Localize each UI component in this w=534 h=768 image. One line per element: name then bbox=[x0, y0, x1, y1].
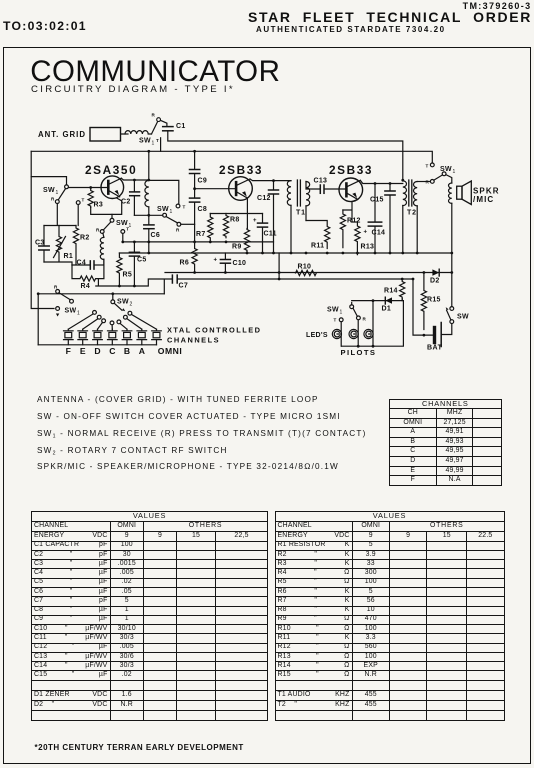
svg-text:C15: C15 bbox=[370, 197, 384, 204]
rotary contact OMNI with wire bbox=[128, 311, 157, 329]
svg-text:C13: C13 bbox=[314, 178, 328, 185]
svg-text:SW: SW bbox=[139, 138, 151, 145]
capacitor C4 bbox=[72, 260, 104, 270]
capacitor C14 electrolytic bbox=[364, 184, 386, 254]
resistor R11 bbox=[306, 221, 330, 250]
wire: T1 right bottom to R11 rail bbox=[305, 206, 307, 221]
capacitor C9 bbox=[190, 170, 208, 185]
capacitor C10 electrolytic bbox=[214, 253, 247, 273]
svg-text:R10: R10 bbox=[298, 264, 312, 271]
svg-text:R: R bbox=[54, 285, 58, 290]
capacitor C11 electrolytic bbox=[253, 214, 277, 254]
svg-text:C5: C5 bbox=[137, 257, 147, 264]
capacitor C6 bbox=[144, 215, 160, 253]
resistor R6 bbox=[180, 242, 198, 273]
wire: junction to SW1 C6 pivot bbox=[134, 214, 162, 216]
node: pilots rail dots bbox=[357, 299, 375, 347]
wire antenna T contact down to top bus bbox=[160, 138, 162, 152]
wire bus H4 bbox=[165, 272, 452, 274]
capacitor C7 bbox=[172, 275, 188, 289]
capacitor C1 bbox=[163, 123, 186, 131]
switch SW1 mid (osc keying) bbox=[96, 218, 129, 233]
svg-text:C4: C4 bbox=[77, 260, 87, 267]
node: L3 bottom junction bbox=[147, 214, 150, 217]
svg-text:R2: R2 bbox=[80, 235, 90, 242]
crystal channel B bbox=[122, 329, 132, 345]
wire: SW R contact to C8 column bbox=[181, 223, 195, 225]
svg-text:D: D bbox=[94, 346, 100, 356]
svg-text:PILOTS: PILOTS bbox=[341, 348, 377, 357]
svg-text:SW: SW bbox=[457, 314, 469, 321]
wire: coil L3 tap stub to SW1 C6 T contact bbox=[149, 151, 179, 203]
wire: R7/R8/C11 top rail bbox=[210, 213, 262, 215]
svg-text:R1: R1 bbox=[64, 253, 74, 260]
capacitor C12 bbox=[257, 181, 279, 253]
svg-text:D2: D2 bbox=[430, 278, 440, 285]
svg-text:T: T bbox=[82, 198, 85, 203]
LED lamp 1 with tangent wire bbox=[332, 322, 341, 346]
svg-text:R: R bbox=[363, 317, 367, 322]
svg-text:C12: C12 bbox=[257, 195, 271, 202]
svg-text:R: R bbox=[176, 228, 180, 233]
svg-text:R8: R8 bbox=[230, 217, 240, 224]
resistor R15 bbox=[421, 273, 440, 330]
wire: base of Q1 bbox=[68, 187, 108, 189]
svg-text:2SB33: 2SB33 bbox=[329, 163, 373, 177]
LED lamp 3 (tangent is pilots mid vertical) bbox=[364, 329, 373, 338]
wire: crystal ground bus bbox=[38, 344, 156, 346]
switch SW1 (C6 side) bbox=[163, 204, 186, 232]
svg-text:+: + bbox=[364, 230, 368, 236]
transformer T1 bbox=[287, 180, 309, 217]
transistor Q3 2SB33 bbox=[339, 178, 363, 202]
resistor R5 bbox=[117, 253, 132, 286]
capacitor C2 bbox=[121, 180, 140, 215]
label SW2 bbox=[117, 299, 133, 308]
wire: SW1 mid R contact to coil L2 top bbox=[103, 233, 104, 237]
rotary contact D with wire bbox=[98, 319, 106, 329]
wire: pilots box top rail bbox=[342, 299, 404, 347]
node: battery rail junction bbox=[423, 334, 426, 337]
antenna coil L1 bbox=[121, 131, 152, 134]
wire: C9/C8 column from top bus bbox=[194, 151, 196, 242]
svg-text:C6: C6 bbox=[151, 232, 161, 239]
rotary contact B with wire bbox=[117, 320, 127, 329]
svg-text:SW: SW bbox=[117, 299, 129, 306]
wire: Q1 collector to oscillator coil bbox=[121, 178, 149, 180]
RIGHT VALUES table bbox=[275, 511, 505, 722]
node wire: bias network top rail bbox=[44, 204, 78, 226]
svg-text:R15: R15 bbox=[427, 297, 441, 304]
svg-text:1: 1 bbox=[152, 141, 155, 147]
wire: feed from left border to SW1 left pivot bbox=[31, 177, 66, 185]
oscillator coil L3 bbox=[145, 180, 149, 206]
label SW1 (C6 side) bbox=[157, 206, 173, 215]
wire: T1 left bottom to M2 bbox=[290, 205, 292, 253]
transformer T2 bbox=[403, 180, 417, 217]
capacitor C8 bbox=[190, 198, 208, 213]
resistor R8 bbox=[223, 214, 239, 238]
svg-text:C7: C7 bbox=[179, 283, 189, 290]
svg-text:C10: C10 bbox=[233, 260, 247, 267]
node: collector rail dots bbox=[374, 179, 405, 185]
resistor R3 bbox=[88, 188, 103, 209]
svg-text:1: 1 bbox=[129, 223, 132, 229]
wire: T2 right top to speaker switch R contact bbox=[417, 181, 430, 183]
svg-text:T: T bbox=[334, 318, 337, 323]
svg-text:R: R bbox=[152, 113, 156, 118]
wire: coil L2 bottom to C4/R4 loop bbox=[103, 259, 105, 265]
wire: circuit left border down to SW1 T contact bbox=[31, 151, 54, 308]
svg-text:C9: C9 bbox=[198, 178, 208, 185]
wire: speaker column down to on/off switch bbox=[451, 203, 453, 306]
battery BAT bbox=[427, 323, 452, 352]
svg-text:+: + bbox=[253, 218, 257, 224]
wire: pilots mid vertical bbox=[372, 301, 374, 347]
wire: H5 right end down to battery rail bbox=[413, 279, 433, 335]
wire H1: C1 down and right to T2 vertical bbox=[168, 131, 403, 180]
switch SW1 bottom left bbox=[54, 285, 73, 304]
svg-text:1: 1 bbox=[56, 190, 59, 196]
resistor R14 bbox=[384, 279, 405, 301]
resistor R9 bbox=[232, 229, 250, 253]
crystal channel E bbox=[78, 329, 88, 345]
wire: SW1 mid T contact down to bus M1 bbox=[122, 233, 124, 242]
svg-text:B: B bbox=[124, 346, 130, 356]
crystal channel C bbox=[108, 329, 118, 345]
svg-text:CHANNELS: CHANNELS bbox=[167, 336, 220, 345]
speaker voice coil bbox=[449, 183, 452, 203]
transistor Q1 2SA350 bbox=[101, 176, 124, 199]
crystal channel D bbox=[93, 329, 103, 345]
diode D2 bbox=[430, 269, 440, 284]
wire: Q3 collector rail to T2 bbox=[360, 180, 403, 183]
svg-text:OMNI: OMNI bbox=[158, 346, 182, 356]
wire: Q2 collector to T1 bbox=[250, 179, 291, 181]
svg-text:R: R bbox=[51, 197, 55, 202]
wire: M2 to H5 drop bbox=[278, 253, 280, 279]
svg-text:R9: R9 bbox=[232, 244, 242, 251]
svg-text:SW: SW bbox=[116, 220, 128, 227]
wire: T2 right bottom to M2 bbox=[416, 206, 418, 253]
resistor R2 bbox=[73, 226, 89, 265]
wire bus M2 bbox=[119, 252, 451, 254]
svg-text:C: C bbox=[109, 346, 115, 356]
svg-text:C3: C3 bbox=[35, 240, 45, 247]
svg-text:ANT. GRID: ANT. GRID bbox=[38, 130, 86, 139]
crystal channel OMNI bbox=[152, 329, 162, 345]
svg-text:R7: R7 bbox=[196, 231, 206, 238]
svg-text:T: T bbox=[156, 138, 159, 143]
svg-text:R12: R12 bbox=[347, 218, 361, 225]
svg-text:C14: C14 bbox=[372, 230, 386, 237]
svg-text:T: T bbox=[426, 164, 429, 169]
svg-text:SW: SW bbox=[43, 187, 55, 194]
ferrite loop antenna rectangle bbox=[90, 128, 121, 142]
svg-text:SW: SW bbox=[157, 206, 169, 213]
wire: T2 left bottom to M2 bbox=[402, 205, 404, 253]
label SW1 (speaker) bbox=[440, 166, 456, 175]
svg-text:+: + bbox=[214, 258, 218, 264]
wire: R3 bottom to emitter node bbox=[91, 198, 122, 215]
wire bus H6 (SW1 bottom rail) bbox=[38, 293, 164, 295]
wire: Q3 emitter down with taps bbox=[343, 199, 358, 222]
svg-text:R13: R13 bbox=[361, 244, 375, 251]
svg-text:R: R bbox=[96, 228, 100, 233]
label SW1 (left) bbox=[43, 187, 59, 196]
svg-text:A: A bbox=[139, 346, 145, 356]
svg-text:R4: R4 bbox=[81, 283, 91, 290]
node dots on H4 bbox=[111, 271, 453, 295]
label SW1 (mid) bbox=[116, 220, 132, 229]
label XTAL CONTROLLED CHANNELS bbox=[167, 326, 262, 345]
crystal channel A bbox=[137, 329, 147, 345]
svg-text:C1: C1 bbox=[176, 123, 186, 130]
svg-text:C8: C8 bbox=[198, 206, 208, 213]
svg-text:LED'S: LED'S bbox=[306, 332, 328, 339]
switch SW1 bottom left T contact bbox=[56, 307, 60, 317]
channel letters F E D C B A OMNI bbox=[66, 346, 183, 356]
svg-text:SW: SW bbox=[65, 308, 77, 315]
label SW1 (pilots) bbox=[327, 307, 343, 316]
svg-text:2SA350: 2SA350 bbox=[85, 163, 137, 177]
svg-text:SW: SW bbox=[440, 166, 452, 173]
svg-text:R3: R3 bbox=[94, 202, 104, 209]
svg-text:1: 1 bbox=[453, 169, 456, 175]
svg-text:BAT: BAT bbox=[427, 345, 443, 352]
wire: H6 down to crystal ground bus bbox=[37, 294, 39, 345]
svg-text:2: 2 bbox=[130, 302, 133, 308]
svg-text:2SB33: 2SB33 bbox=[219, 163, 263, 177]
switch SW1 pilots bbox=[334, 303, 367, 323]
svg-text:1: 1 bbox=[340, 310, 343, 316]
rotary contact C with wire bbox=[110, 321, 114, 329]
svg-text:E: E bbox=[80, 346, 86, 356]
wire: emitter node down to SW1 mid pivot bbox=[111, 214, 113, 218]
resistor R4 bbox=[72, 259, 104, 290]
node dots on M1/M2 bbox=[121, 241, 453, 255]
svg-text:T1: T1 bbox=[296, 210, 306, 217]
switch SW1 left (receive/transmit) bbox=[51, 185, 85, 205]
node: H6 left end bbox=[37, 292, 40, 295]
switch SW2 rotary bbox=[111, 294, 125, 312]
svg-text:C11: C11 bbox=[264, 231, 277, 238]
svg-text:R5: R5 bbox=[123, 272, 133, 279]
capacitor C5 bbox=[129, 242, 146, 286]
crystal channel F bbox=[64, 329, 74, 345]
rotary contact F with wire bbox=[68, 311, 96, 330]
diode D1 bbox=[382, 297, 393, 312]
resistor R12 bbox=[340, 210, 360, 248]
speaker SPKR/MIC symbol bbox=[457, 181, 472, 205]
capacitor C15 bbox=[370, 184, 395, 254]
wire: T1 right top to C13 bbox=[306, 182, 320, 190]
svg-text:/MIC: /MIC bbox=[473, 195, 494, 204]
wire bus H5 with C7 gap bbox=[96, 279, 413, 294]
svg-text:R11: R11 bbox=[311, 243, 324, 250]
switch SW on/off bbox=[446, 307, 469, 324]
svg-text:1: 1 bbox=[77, 311, 80, 317]
wire: coil L3 bottom to junction bbox=[148, 207, 150, 215]
svg-text:1: 1 bbox=[170, 209, 173, 215]
svg-text:XTAL CONTROLLED: XTAL CONTROLLED bbox=[167, 326, 262, 335]
svg-text:R14: R14 bbox=[384, 288, 398, 295]
switch SW1 speaker bbox=[426, 163, 452, 185]
svg-text:T: T bbox=[183, 205, 186, 210]
svg-text:F: F bbox=[66, 346, 71, 356]
svg-text:D1: D1 bbox=[382, 306, 392, 313]
resistor R7 bbox=[196, 214, 213, 242]
capacitor C3 bbox=[35, 226, 49, 263]
LEFT VALUES table bbox=[31, 511, 268, 722]
resistor R1 (variable) bbox=[54, 226, 74, 262]
node wire: bias network bottom rail bbox=[44, 262, 72, 265]
capacitor C13 bbox=[314, 178, 328, 194]
transistor Q2 2SB33 bbox=[229, 177, 253, 201]
label SPKR/MIC bbox=[473, 187, 500, 205]
rotary contact A with wire bbox=[124, 315, 142, 329]
label SW1 (bottom left) bbox=[65, 308, 81, 317]
svg-text:SW: SW bbox=[327, 307, 339, 314]
wire bus M1 bbox=[123, 241, 274, 243]
resistor R10 bbox=[296, 264, 317, 276]
resistor R13 bbox=[355, 222, 374, 255]
coil L2 (emitter choke) bbox=[100, 237, 104, 259]
wire: Q2 emitter down bbox=[246, 198, 248, 228]
svg-text:R6: R6 bbox=[180, 260, 190, 267]
svg-text:C2: C2 bbox=[121, 199, 131, 206]
node: collector junction dots bbox=[89, 150, 196, 189]
wire: C13 to Q3 base bbox=[324, 188, 346, 190]
switch SW1 antenna: lever and contacts bbox=[152, 113, 167, 135]
LED lamp 2 with tangent wire bbox=[349, 320, 358, 346]
wire: base of Q2 bbox=[195, 188, 237, 190]
svg-text:T2: T2 bbox=[407, 210, 417, 217]
wire: antenna to ferrite bbox=[125, 133, 128, 135]
label SW1 (antenna) with T bbox=[139, 138, 159, 147]
node: base junction bbox=[193, 187, 196, 190]
rotary contact E with wire bbox=[83, 315, 101, 329]
wire H2: circuit top edge to speaker switch T contact bbox=[31, 151, 432, 163]
node: C12 top bbox=[272, 179, 275, 182]
CHANNELS table bbox=[389, 399, 503, 486]
node: drop junctions bbox=[278, 278, 415, 281]
